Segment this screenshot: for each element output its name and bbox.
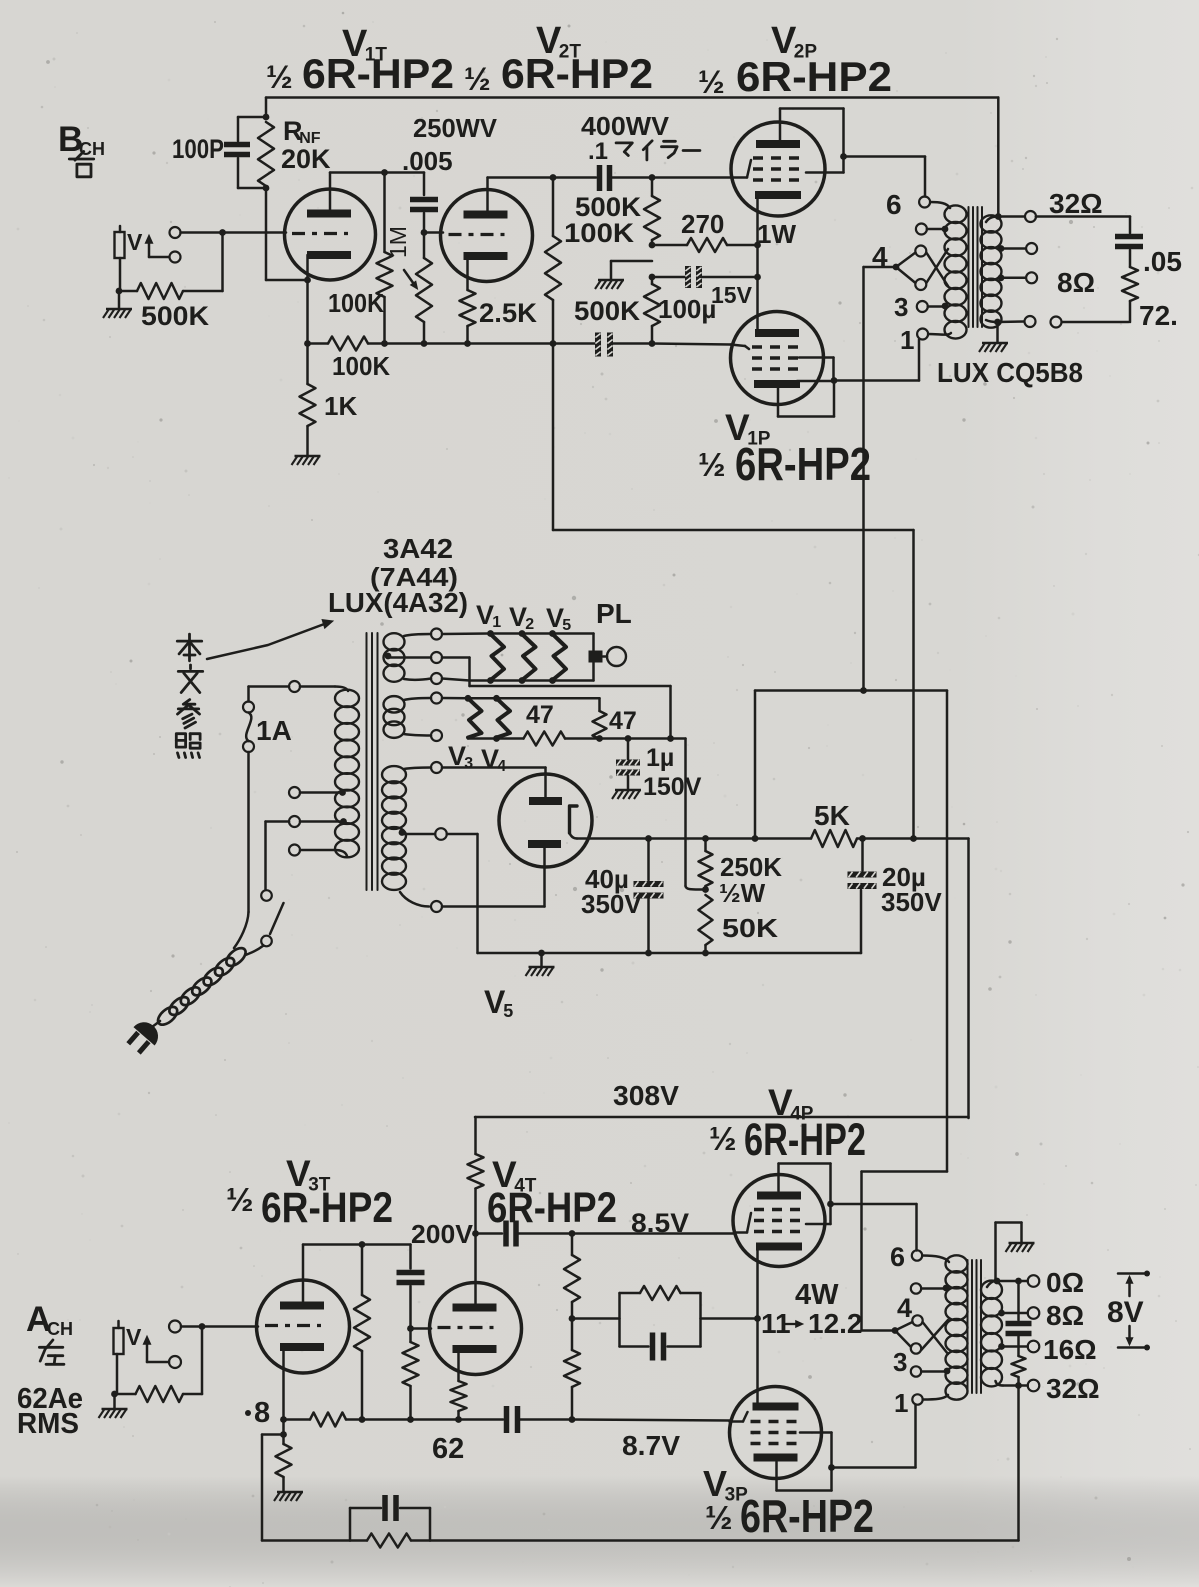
svg-text:270: 270: [681, 209, 724, 239]
label 6 bot OT: [890, 1242, 905, 1272]
coil OT2 secondary: [981, 1281, 1002, 1387]
switch contact 1 bot OT: [912, 1394, 922, 1404]
svg-text:100K: 100K: [328, 288, 384, 318]
label V2T: [536, 20, 581, 63]
arrow 1M variable: [404, 270, 418, 289]
cord twisted pair: [155, 945, 249, 1028]
resistor lower mid: [564, 1319, 580, 1420]
label 350V 20u: [881, 887, 942, 917]
resistor 1K: [300, 344, 316, 456]
wire contact6 to coil bot: [922, 1256, 949, 1263]
label 500K lower: [574, 296, 641, 326]
heater V2: [522, 634, 536, 680]
wire crossover X top OT: [926, 249, 948, 286]
core OT2: [968, 1260, 982, 1393]
capacitor 100P: [224, 117, 266, 188]
zobel bot cap: [1006, 1281, 1032, 1334]
wire B+ down to 5K: [910, 530, 917, 842]
label half 6R-HP2 V1P: [698, 438, 871, 490]
wire heater1 tap: [385, 653, 431, 660]
wire heater1 bottom: [404, 679, 431, 680]
wire contact5 tap bot: [921, 1285, 949, 1292]
label 100K load V2T: [564, 218, 635, 248]
resistor 47 vertical: [593, 711, 607, 742]
wire V3P grid internal: [730, 1412, 748, 1422]
svg-text:3A42: 3A42: [383, 533, 453, 564]
label 16ohm: [1043, 1334, 1097, 1365]
resistor 250K: [699, 839, 713, 893]
svg-text:3: 3: [464, 755, 473, 772]
node V4T grid: [407, 1325, 431, 1332]
label V2P: [771, 20, 817, 63]
svg-text:1W: 1W: [757, 219, 796, 249]
switch contact 6 bot OT: [912, 1250, 922, 1260]
wire screen rail: [755, 687, 947, 694]
label .1 mylar: [588, 138, 700, 165]
wire 62 bus: [280, 1413, 503, 1427]
wire circle2 to railB: [442, 658, 674, 742]
pilot lamp PL: [589, 647, 627, 666]
heater V3: [468, 698, 482, 737]
label 8ohm: [1057, 267, 1095, 298]
svg-text:8.7V: 8.7V: [622, 1430, 680, 1461]
wire common cathode to V3P: [756, 1319, 759, 1408]
svg-text:5: 5: [503, 1001, 513, 1021]
switch contact 3 top OT: [917, 301, 928, 312]
wire bus first stage: [304, 337, 556, 351]
terminal PT sec 1: [431, 629, 442, 640]
label 6 top OT: [886, 189, 902, 220]
svg-text:500K: 500K: [141, 301, 210, 331]
label V1P: [725, 407, 771, 449]
svg-text:1A: 1A: [256, 715, 292, 746]
switch contact 5 top OT: [916, 224, 927, 235]
svg-text:6R-HP2: 6R-HP2: [302, 50, 454, 97]
svg-text:5K: 5K: [814, 800, 850, 831]
switch contact 6 top OT: [919, 197, 930, 208]
switch contact 4a top OT: [915, 246, 926, 257]
wire OT1 sec top node: [986, 213, 1025, 222]
wire heater2 bottom: [404, 734, 431, 736]
label half 6R-HP2 V2P: [698, 53, 892, 100]
label 40u: [585, 864, 629, 894]
svg-text:½: ½: [709, 1120, 737, 1157]
wire V5 cathode out: [570, 833, 578, 839]
label V5 heater: [546, 603, 571, 634]
svg-text:32Ω: 32Ω: [1046, 1373, 1100, 1404]
label .8: [245, 1397, 270, 1429]
svg-text:4W: 4W: [795, 1279, 839, 1311]
svg-text:8Ω: 8Ω: [1057, 267, 1095, 298]
svg-text:½: ½: [464, 61, 491, 97]
terminal PT sec 3: [431, 673, 442, 684]
ground input B: [103, 291, 132, 318]
svg-text:150V: 150V: [643, 773, 702, 801]
wire pot bottom B: [116, 258, 123, 294]
label 1K: [324, 391, 357, 421]
wire 32ohm bot: [996, 1380, 1040, 1392]
wire switch branch: [266, 822, 290, 890]
resistor 500K input B: [119, 233, 223, 300]
svg-text:250WV: 250WV: [413, 113, 498, 143]
resistor grid V4T: [403, 1329, 419, 1420]
svg-text:100K: 100K: [332, 351, 390, 381]
label 8.7V: [622, 1430, 680, 1461]
plug AC: [123, 1017, 164, 1058]
label V4: [481, 744, 506, 775]
wire 32ohm line: [1036, 217, 1130, 234]
terminal PT pri 4: [289, 845, 300, 856]
zobel bot res: [1012, 1337, 1026, 1389]
terminal PT sec 7: [435, 828, 447, 840]
label 308V: [613, 1080, 679, 1111]
wire RNF bottom to cathode: [263, 185, 311, 284]
svg-text:0Ω: 0Ω: [1046, 1267, 1084, 1298]
label halfW: [719, 878, 766, 908]
wire screen riser to lower OT: [862, 1172, 948, 1331]
arrow see-text: [207, 620, 333, 659]
wire screen riser top OT: [862, 267, 865, 691]
svg-text:6R-HP2: 6R-HP2: [744, 1114, 866, 1165]
resistor 5K: [811, 830, 857, 847]
capacitor 62 coupling: [507, 1406, 518, 1433]
label 3 top OT: [894, 292, 908, 322]
label 3A42: [383, 533, 453, 564]
label 62Ae: [17, 1383, 83, 1415]
switch contact 4b bot OT: [911, 1343, 921, 1353]
label 100K bus: [332, 351, 390, 381]
ground divider: [595, 261, 652, 289]
label 50K: [722, 913, 778, 943]
switch contact 4a bot OT: [912, 1315, 922, 1325]
capacitor 40u 350V: [634, 839, 664, 954]
wire V4T plate riser: [472, 1189, 479, 1309]
wire to V1P grid: [652, 344, 731, 345]
wire contact1 to coil bot: [923, 1395, 948, 1400]
svg-text:½: ½: [266, 59, 293, 95]
svg-text:308V: 308V: [613, 1080, 679, 1111]
svg-text:LUX(4A32): LUX(4A32): [328, 587, 468, 618]
svg-text:6: 6: [886, 189, 902, 220]
resistor 1K A: [276, 1435, 292, 1492]
resistor 270: [652, 238, 761, 252]
svg-text:15V: 15V: [711, 282, 753, 308]
wire V1T plate node: [330, 169, 424, 176]
label .005: [402, 146, 453, 176]
wire V3T cathode: [282, 1347, 285, 1420]
wire heater1 top: [404, 634, 431, 636]
wire V2P grid internal: [733, 160, 751, 178]
svg-text:8Ω: 8Ω: [1046, 1300, 1084, 1331]
ground PSU: [526, 953, 555, 976]
svg-text:V: V: [127, 229, 143, 255]
svg-text:.1: .1: [588, 138, 608, 165]
svg-text:½: ½: [705, 1499, 733, 1536]
label RMS: [17, 1408, 79, 1440]
label 1M: [385, 226, 411, 258]
svg-text:1: 1: [900, 325, 914, 355]
svg-text:400WV: 400WV: [581, 111, 670, 141]
capacitor coupling to V1P: [553, 333, 655, 357]
label PL: [596, 598, 632, 629]
wire OT1 sec tap2: [998, 272, 1038, 283]
terminal PT pri 2: [289, 787, 300, 798]
wire 0ohm line: [994, 1275, 1040, 1287]
coil PT heater2: [384, 696, 405, 738]
svg-text:16Ω: 16Ω: [1043, 1334, 1097, 1365]
tube V2P: [731, 122, 825, 216]
terminal PT pri 3: [289, 816, 300, 827]
wire OT1 sec tap1: [998, 243, 1038, 254]
label ACH: [26, 1300, 73, 1364]
wire RC right: [701, 1315, 761, 1322]
label V5 tube: [484, 984, 513, 1021]
label 6R-HP2 V4T: [487, 1184, 617, 1232]
label 47 h: [526, 701, 554, 729]
svg-text:2: 2: [525, 616, 534, 633]
terminal PT sec 4: [431, 693, 442, 704]
wire fan 4 bot OT: [862, 1322, 913, 1347]
wire NFB bus bottom: [262, 1539, 1019, 1542]
wire feedback bus top: [266, 98, 998, 217]
svg-text:PL: PL: [596, 598, 632, 629]
dimension 8V: [1107, 1271, 1150, 1351]
label 1W: [757, 219, 796, 249]
wire to V2P grid: [652, 176, 733, 179]
wire V4P to contact6: [831, 1204, 917, 1251]
svg-text:6R-HP2: 6R-HP2: [501, 50, 653, 97]
wire screen rail right leg: [946, 691, 949, 1172]
svg-text:350V: 350V: [581, 889, 642, 919]
resistor 50K: [699, 895, 713, 953]
wire crossover X bot OT: [921, 1320, 948, 1354]
heater V1: [491, 634, 505, 680]
tube V1T: [285, 189, 376, 280]
wire B+ after 5K: [857, 835, 969, 1118]
svg-text:47: 47: [609, 707, 637, 735]
switch contact 1 top OT: [917, 329, 928, 340]
tube V1P: [731, 312, 824, 405]
wire V5 plate: [442, 768, 546, 798]
wire PT pri tap3: [300, 818, 347, 825]
svg-text:4: 4: [897, 1293, 912, 1323]
svg-text:47: 47: [526, 701, 554, 729]
coil OT1 secondary: [981, 215, 1002, 327]
label half 6R-HP2 V4P: [709, 1114, 866, 1165]
RC parallel box: [620, 1286, 701, 1361]
wire PT pri tap2: [300, 789, 346, 796]
label 270: [681, 209, 724, 239]
svg-text:3: 3: [893, 1347, 907, 1377]
wire V4P grid internal: [734, 1213, 751, 1233]
label half 6R-HP2 V2T: [464, 50, 653, 97]
label 250K: [720, 852, 782, 882]
wire B+ riser from bus: [553, 344, 914, 531]
ground input A: [99, 1394, 128, 1418]
label V3P: [703, 1463, 748, 1505]
wire fan 4 top OT: [864, 253, 916, 284]
wire 8.5V line: [572, 1232, 734, 1235]
label 47 v: [609, 707, 637, 735]
core OT1: [969, 207, 983, 327]
terminal PT sec 6: [431, 762, 442, 773]
wire grid line A: [181, 1323, 258, 1330]
wire V3T plate: [302, 1245, 305, 1306]
svg-text:50K: 50K: [722, 913, 778, 943]
wire HV tap CT: [399, 829, 435, 836]
label 4 bot OT: [897, 1293, 912, 1323]
wire switch to cord: [246, 946, 264, 956]
svg-text:1: 1: [894, 1388, 908, 1418]
label 5K: [814, 800, 850, 831]
svg-text:2.5K: 2.5K: [479, 298, 537, 328]
tube V3P: [730, 1387, 822, 1479]
wire cathode junction A: [280, 1420, 287, 1438]
svg-text:12.2: 12.2: [808, 1308, 863, 1339]
switch contact 5 bot OT: [911, 1283, 921, 1293]
svg-text:200V: 200V: [411, 1219, 474, 1249]
label V3: [448, 741, 473, 772]
svg-text:100µ: 100µ: [658, 294, 716, 324]
svg-text:100P: 100P: [172, 134, 224, 164]
wire heater2 top: [404, 698, 431, 700]
wire V1T cathode: [306, 255, 309, 344]
jack circles A: [169, 1321, 181, 1369]
wire contact3 tap: [928, 303, 949, 310]
wire OT1 sec bottom: [986, 316, 1129, 328]
wire V3T plate node: [303, 1241, 411, 1248]
resistor 100K plate load V2T: [545, 178, 561, 344]
wire contact3 tap bot: [921, 1368, 950, 1375]
svg-text:8: 8: [254, 1397, 270, 1429]
wire 308V line: [475, 1116, 969, 1119]
wire OT2 sec top: [987, 1223, 1022, 1288]
resistor 308V dropper: [468, 1117, 484, 1189]
wire 8ohm tap: [998, 1307, 1039, 1319]
wire grid line B: [181, 229, 287, 236]
svg-text:1M: 1M: [385, 226, 411, 258]
svg-text:RMS: RMS: [17, 1408, 79, 1440]
label 500K upper: [575, 192, 642, 222]
capacitor 8.5V coupling: [476, 1221, 576, 1247]
wiper arrow B: [145, 235, 169, 257]
svg-text:20K: 20K: [281, 144, 331, 174]
core PT: [367, 633, 378, 890]
wire heater V5 line: [442, 905, 545, 908]
wiper arrow A: [143, 1336, 169, 1362]
switch AC lever: [270, 903, 284, 934]
coil PT heater1: [384, 633, 405, 682]
wire V2P plate loop: [780, 109, 847, 173]
svg-text:1: 1: [492, 614, 501, 631]
capacitor .1 mylar 400WV: [600, 165, 656, 191]
label 100K plate V1T: [328, 288, 384, 318]
terminal 32ohm: [1025, 211, 1036, 222]
switch contact 4b top OT: [915, 279, 926, 290]
ground 1K A: [274, 1492, 303, 1501]
label 2.5K: [479, 298, 537, 328]
wire heater railB: [468, 732, 686, 746]
resistor plate load V3T: [354, 1245, 370, 1420]
resistor 100K plate load V1T: [377, 173, 393, 344]
capacitor .05: [1115, 237, 1143, 247]
label 32ohm: [1049, 188, 1103, 219]
switch AC upper: [261, 890, 272, 901]
svg-text:350V: 350V: [881, 887, 942, 917]
label 15V: [711, 282, 753, 308]
tube V2T: [441, 190, 533, 282]
tube V4T: [430, 1283, 522, 1375]
label half 6R-HP2 V3P: [705, 1490, 874, 1542]
svg-text:½: ½: [226, 1181, 254, 1218]
capacitor coupling V3T: [397, 1245, 425, 1329]
wire V2P cathode: [756, 198, 759, 334]
wire V3P plate out: [777, 1462, 832, 1491]
label .05: [1143, 246, 1182, 277]
label 72: [1139, 300, 1178, 331]
resistor 72: [1122, 250, 1138, 322]
capacitor .005: [410, 173, 438, 233]
jack circles B: [170, 227, 181, 263]
svg-text:1K: 1K: [324, 391, 357, 421]
label 11-12.2: [761, 1308, 863, 1339]
wire 16ohm tap: [998, 1341, 1039, 1353]
wire rectifier output line: [577, 835, 811, 842]
label V pot B: [127, 229, 143, 255]
wire V3P to contact1: [832, 1405, 916, 1468]
svg-text:100K: 100K: [564, 218, 635, 248]
label 4 top OT: [872, 241, 888, 272]
svg-text:62: 62: [432, 1433, 464, 1465]
label 400WV: [581, 111, 670, 141]
svg-text:8V: 8V: [1107, 1296, 1144, 1329]
svg-text:½: ½: [698, 446, 726, 483]
wire heater rail1 bottom: [442, 677, 594, 684]
resistor 500K lower divider: [644, 277, 660, 344]
coil OT2 primary: [946, 1255, 968, 1399]
label 500K input B: [141, 301, 210, 331]
label 1 bot OT: [894, 1388, 908, 1418]
svg-text:.05: .05: [1143, 246, 1182, 277]
svg-text:½: ½: [698, 64, 725, 100]
label 62: [432, 1433, 464, 1465]
wire RNF top node: [263, 98, 270, 121]
heater V4: [497, 698, 511, 737]
coil OT1 primary: [945, 205, 967, 338]
wire PT pri top: [300, 687, 348, 692]
wire screen rail left leg: [752, 691, 759, 842]
label 8ohm bot: [1046, 1300, 1084, 1331]
resistor 500K input A: [111, 1386, 202, 1402]
label 8.5V: [631, 1208, 689, 1238]
wire NFB left riser: [262, 1435, 284, 1541]
label 20u: [882, 862, 926, 892]
capacitor 20u 350V: [848, 839, 877, 954]
svg-text:LUX CQ5B8: LUX CQ5B8: [937, 357, 1083, 388]
label half 6R-HP2 V3T: [226, 1181, 393, 1232]
volume pot A rect: [114, 1321, 124, 1354]
svg-text:6R-HP2: 6R-HP2: [740, 1490, 874, 1542]
label V2: [509, 602, 534, 633]
fuse 1A: [243, 687, 289, 753]
wire contact1 to coil: [928, 333, 951, 335]
switch contact 3 bot OT: [911, 1366, 921, 1376]
wire V1P plate box: [778, 381, 834, 417]
svg-text:V: V: [126, 1324, 142, 1350]
svg-text:CH: CH: [79, 139, 105, 159]
terminal PT pri 1: [289, 681, 300, 692]
tube V3T: [257, 1280, 350, 1373]
